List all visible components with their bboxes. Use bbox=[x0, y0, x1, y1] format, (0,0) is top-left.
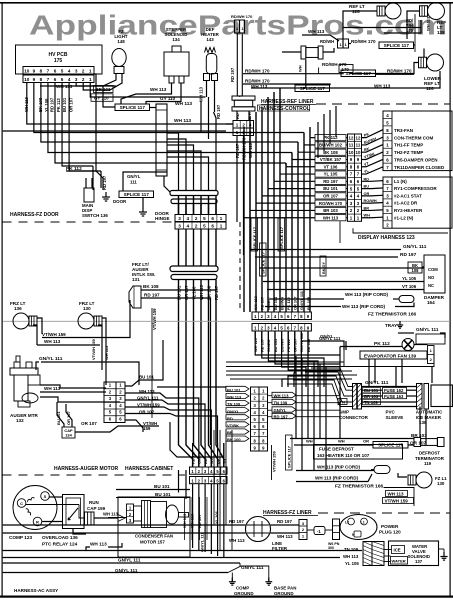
splice SPLICE 117 second bbox=[341, 70, 376, 77]
heater terminals bbox=[204, 74, 210, 81]
splice SPLICE 117 defrost bbox=[373, 442, 408, 449]
water valve box WATER VALVE SOLENOID 137 bbox=[389, 541, 439, 566]
svg-text:RD 197: RD 197 bbox=[260, 297, 265, 310]
svg-text:RD/WH 170: RD/WH 170 bbox=[245, 69, 270, 74]
wire 3pin leads down bbox=[236, 136, 238, 161]
svg-text:WH 113: WH 113 bbox=[274, 394, 290, 399]
svg-text:4: 4 bbox=[187, 216, 190, 221]
wire staircase row 7 bbox=[280, 173, 315, 175]
svg-text:BR: BR bbox=[364, 206, 370, 210]
HV PCB connector pins row 1 bbox=[23, 67, 94, 75]
svg-text:RD: RD bbox=[364, 177, 370, 181]
wire rail bottom 2 bbox=[3, 557, 340, 559]
svg-text:L1: L1 bbox=[361, 521, 365, 525]
wire right box outline bbox=[384, 488, 415, 507]
svg-text:TR11DAMPER CLOSED: TR11DAMPER CLOSED bbox=[394, 165, 445, 170]
wire staircase row 3 bbox=[256, 202, 315, 204]
svg-text:VT/WH 159: VT/WH 159 bbox=[385, 499, 409, 504]
svg-text:SWITCH 136: SWITCH 136 bbox=[82, 213, 108, 218]
svg-text:#2-AC1 STAT: #2-AC1 STAT bbox=[394, 193, 422, 198]
ground comp bbox=[231, 573, 233, 582]
svg-text:6: 6 bbox=[54, 77, 57, 82]
svg-text:FUSE DEFROST: FUSE DEFROST bbox=[319, 447, 354, 452]
svg-text:WH: WH bbox=[306, 439, 313, 444]
wire rail gn/yl 1 bbox=[3, 562, 240, 564]
svg-text:119: 119 bbox=[424, 461, 432, 466]
wire lf right leads bbox=[271, 524, 300, 526]
svg-text:WH: WH bbox=[298, 65, 303, 72]
svg-text:VT/BK 157: VT/BK 157 bbox=[320, 157, 342, 162]
wire bundle mid-right crossing bbox=[226, 361, 344, 363]
svg-text:TN 109: TN 109 bbox=[344, 547, 359, 552]
wires cabinet connector fanout bbox=[125, 340, 163, 386]
svg-text:1: 1 bbox=[89, 69, 92, 74]
border frame left bbox=[2, 2, 3, 597]
wire staircase row 4 bbox=[262, 195, 315, 197]
svg-text:1: 1 bbox=[236, 130, 239, 135]
svg-text:BU 101: BU 101 bbox=[323, 186, 338, 191]
connector 9-pin row1 bbox=[252, 312, 311, 320]
wire bundle hinge extra drops bbox=[200, 101, 202, 133]
fan EVAPORATOR FAN symbol bbox=[402, 339, 414, 351]
wire barrel leads down bbox=[236, 111, 238, 120]
HV PCB 175 box bbox=[16, 45, 103, 74]
compressor COMP 123 bbox=[13, 486, 57, 530]
svg-text:11: 11 bbox=[356, 143, 361, 148]
wire lf left leads bbox=[3, 524, 246, 526]
svg-text:4: 4 bbox=[68, 77, 71, 82]
svg-text:RY1-COMPRESSOR: RY1-COMPRESSOR bbox=[394, 186, 437, 191]
svg-text:RY2-HEATER: RY2-HEATER bbox=[394, 208, 423, 213]
wire auger leads bbox=[40, 391, 106, 393]
svg-text:BU 101: BU 101 bbox=[273, 296, 278, 310]
svg-text:2: 2 bbox=[195, 224, 198, 229]
svg-text:3: 3 bbox=[75, 69, 78, 74]
svg-text:PTC RELAY 124: PTC RELAY 124 bbox=[42, 542, 78, 547]
svg-text:RD 197: RD 197 bbox=[102, 175, 107, 190]
svg-text:4: 4 bbox=[68, 69, 71, 74]
svg-text:6: 6 bbox=[211, 216, 214, 221]
fz probe capsule bbox=[374, 466, 390, 474]
label GY 110 boxed bbox=[91, 94, 113, 102]
thermistor probe capsule bbox=[399, 296, 414, 303]
svg-text:8: 8 bbox=[40, 77, 43, 82]
svg-text:2: 2 bbox=[195, 216, 198, 221]
svg-text:R: R bbox=[36, 520, 39, 525]
svg-text:WH 113: WH 113 bbox=[199, 86, 204, 102]
svg-text:159: 159 bbox=[143, 426, 151, 431]
wire rip cord 1 bbox=[270, 298, 344, 300]
svg-text:RUN: RUN bbox=[89, 500, 99, 505]
svg-text:RD 197: RD 197 bbox=[50, 97, 55, 112]
splice SPLICE 117 rotated b bbox=[260, 243, 267, 276]
svg-text:VT/WH 159: VT/WH 159 bbox=[42, 332, 66, 337]
capsule -1 bbox=[314, 527, 325, 535]
svg-text:NO: NO bbox=[428, 275, 435, 280]
wire cabinet to mid connector runs bbox=[157, 387, 226, 392]
overload PTC RELAY box bbox=[63, 495, 85, 529]
svg-text:POWER: POWER bbox=[381, 524, 399, 529]
svg-text:WH 113: WH 113 bbox=[90, 542, 107, 547]
wire rip cord b bbox=[296, 474, 372, 482]
wire rdwh row-a bbox=[243, 73, 344, 75]
box EVAPORATOR FAN 139 bbox=[360, 351, 427, 359]
wire right long verticals bbox=[368, 359, 370, 386]
wire bk box leads bbox=[422, 266, 424, 268]
svg-text:WH 113: WH 113 bbox=[277, 534, 293, 539]
svg-text:10: 10 bbox=[24, 77, 30, 82]
wires amp rows bbox=[362, 389, 383, 391]
svg-text:TH1-FF TEMP: TH1-FF TEMP bbox=[394, 143, 423, 148]
svg-text:RD 197: RD 197 bbox=[400, 252, 417, 258]
svg-text:4: 4 bbox=[187, 224, 190, 229]
svg-text:BU 101: BU 101 bbox=[155, 492, 171, 497]
svg-text:RD/WH 170: RD/WH 170 bbox=[387, 69, 412, 74]
wire ref lt 128 lead bbox=[343, 11, 377, 39]
ground main disp bbox=[105, 192, 107, 197]
svg-text:OR 107: OR 107 bbox=[81, 421, 97, 426]
wire cap leads bbox=[57, 402, 64, 427]
wire vt/wh run bbox=[42, 300, 130, 338]
HV PCB connector pins row 2 bbox=[23, 75, 94, 83]
power plug POWER PLUG 120 bbox=[340, 515, 377, 540]
wire pk112 diagonal bbox=[66, 171, 103, 190]
svg-text:RD 197: RD 197 bbox=[274, 415, 289, 420]
svg-text:TR5-DAMPER OPEN: TR5-DAMPER OPEN bbox=[394, 158, 438, 163]
svg-text:SPLICE 117: SPLICE 117 bbox=[124, 192, 150, 197]
svg-text:GN/YL 111: GN/YL 111 bbox=[118, 558, 141, 563]
svg-text:WH 113: WH 113 bbox=[227, 395, 242, 400]
splice SPLICE 117 wh row bbox=[295, 85, 330, 92]
svg-text:DEFROST: DEFROST bbox=[419, 451, 440, 456]
svg-text:WATER: WATER bbox=[392, 559, 406, 564]
wire bundle central top drops bbox=[309, 127, 311, 138]
wire rd197 intlk bbox=[141, 298, 211, 445]
section divider ref-liner dashed bbox=[316, 103, 450, 105]
svg-text:163 HEATER 110 OR 107: 163 HEATER 110 OR 107 bbox=[317, 453, 370, 458]
wire gn/yl damper run bbox=[250, 249, 401, 251]
svg-text:SPLICE 117: SPLICE 117 bbox=[346, 71, 372, 76]
svg-text:FUSE 162: FUSE 162 bbox=[384, 388, 404, 393]
wire pcb pin bundle verticals bbox=[27, 83, 233, 125]
svg-text:COMP 123: COMP 123 bbox=[9, 535, 32, 540]
wire loom ladder bbox=[156, 104, 167, 176]
svg-text:L1 (N): L1 (N) bbox=[394, 179, 407, 184]
border frame top bbox=[0, 2, 453, 4]
wire arrow left connector bbox=[108, 517, 127, 519]
ground base pan bbox=[268, 578, 270, 582]
wire staircase verticals bbox=[309, 138, 311, 312]
svg-text:TR3-FAN: TR3-FAN bbox=[394, 128, 413, 133]
svg-text:ICE: ICE bbox=[394, 548, 401, 553]
svg-text:WH 113: WH 113 bbox=[426, 16, 431, 31]
wire comp to relay bbox=[50, 496, 63, 498]
wire rdwh row-c bbox=[376, 73, 414, 75]
label 170 boxed bbox=[339, 65, 353, 73]
wire staircase row 12 bbox=[310, 137, 315, 139]
svg-text:9: 9 bbox=[33, 77, 36, 82]
power cord connector stack bbox=[363, 542, 372, 566]
wire door hinge verticals upper bbox=[178, 196, 180, 215]
svg-text:WH: WH bbox=[338, 439, 345, 444]
motor AUGER MTR 132 bbox=[10, 368, 38, 375]
svg-text:VT/WH 159: VT/WH 159 bbox=[272, 451, 277, 472]
svg-text:HARNESS-FZ DOOR: HARNESS-FZ DOOR bbox=[10, 212, 59, 218]
svg-text:RD 197: RD 197 bbox=[323, 179, 338, 184]
svg-text:131: 131 bbox=[132, 277, 140, 282]
svg-text:RD 197: RD 197 bbox=[235, 143, 240, 158]
switch MAIN DISP SWITCH 136 bbox=[84, 188, 94, 202]
svg-text:RD: RD bbox=[235, 113, 240, 119]
svg-text:GN/YL 111: GN/YL 111 bbox=[403, 244, 427, 250]
svg-text:FUSE 163: FUSE 163 bbox=[384, 394, 404, 399]
wire left feeder to 3pin bbox=[226, 123, 233, 125]
svg-text:6: 6 bbox=[54, 69, 57, 74]
wire rail bottom 1 bbox=[3, 550, 362, 552]
svg-text:SPLICE 117: SPLICE 117 bbox=[287, 445, 292, 468]
wire heater legs bbox=[206, 81, 208, 98]
svg-text:TN 109: TN 109 bbox=[274, 401, 288, 406]
wire rip cord a bbox=[296, 470, 374, 472]
svg-text:BU 101: BU 101 bbox=[154, 484, 170, 489]
wire gn/yl auger bbox=[36, 362, 39, 370]
svg-text:WH 113: WH 113 bbox=[388, 492, 405, 497]
svg-text:S: S bbox=[44, 494, 47, 499]
svg-text:BN 100: BN 100 bbox=[227, 437, 241, 442]
connector lf 3cell right bbox=[333, 519, 340, 540]
wire 3pin continue bbox=[236, 160, 238, 222]
label ICE boxed bbox=[392, 546, 405, 554]
svg-text:HINGE: HINGE bbox=[155, 216, 170, 221]
svg-text:VT 106: VT 106 bbox=[402, 284, 417, 289]
ground tray bbox=[399, 321, 401, 325]
arrow connector wh bbox=[118, 515, 125, 522]
svg-text:GN/YL: GN/YL bbox=[274, 408, 287, 413]
svg-text:N: N bbox=[352, 533, 355, 537]
evap fan enclosure bbox=[344, 350, 434, 367]
svg-text:L2: L2 bbox=[345, 521, 349, 525]
svg-text:132: 132 bbox=[16, 418, 24, 423]
svg-text:10: 10 bbox=[349, 150, 354, 155]
svg-text:WH 113: WH 113 bbox=[103, 512, 119, 517]
svg-text:5: 5 bbox=[203, 216, 206, 221]
connector cabinet-liner 6pin row2 bbox=[190, 477, 228, 484]
wires amp connector left feeds bbox=[311, 368, 353, 387]
svg-text:5: 5 bbox=[61, 77, 64, 82]
wire condenser rotated-label wires bbox=[184, 497, 186, 540]
wire wh113 long row bbox=[251, 71, 440, 88]
svg-text:138: 138 bbox=[437, 30, 445, 35]
wire bundle 9pin to right fanout bbox=[255, 331, 340, 355]
svg-text:134: 134 bbox=[172, 37, 180, 42]
svg-text:HARNESS-AUGER MOTOR: HARNESS-AUGER MOTOR bbox=[54, 466, 118, 472]
label TN boxed bbox=[338, 399, 347, 405]
wire door hinge verticals lower bbox=[178, 229, 180, 266]
wires connector to display upper (diagonals) bbox=[362, 130, 384, 138]
wire barrel drop wh bbox=[305, 60, 307, 88]
svg-text:YL 105: YL 105 bbox=[402, 276, 417, 281]
svg-text:BU 101: BU 101 bbox=[139, 375, 154, 380]
wire hinge bundle bottom fanout bbox=[178, 470, 180, 493]
box FUSE DEFROST HEATER bbox=[314, 445, 403, 460]
svg-text:EVAPORATOR FAN 139: EVAPORATOR FAN 139 bbox=[364, 354, 416, 359]
wire 9pin verticals below bbox=[254, 331, 256, 340]
wire staircase row 11 bbox=[304, 144, 315, 146]
svg-text:WH 113 (RIP CORD): WH 113 (RIP CORD) bbox=[317, 465, 361, 470]
svg-text:GN/YL 111: GN/YL 111 bbox=[319, 336, 341, 341]
svg-text:SPLICE 117: SPLICE 117 bbox=[261, 251, 266, 274]
label BR 103 boxed bbox=[94, 86, 114, 93]
splice SPLICE 117 upper right bbox=[379, 42, 414, 49]
svg-text:WH 113: WH 113 bbox=[104, 345, 109, 360]
svg-text:WH 113: WH 113 bbox=[56, 84, 73, 89]
border frame bottom bbox=[0, 596, 453, 598]
svg-text:WH 113: WH 113 bbox=[229, 538, 245, 543]
svg-text:3: 3 bbox=[178, 224, 181, 229]
svg-text:RD/WH 170: RD/WH 170 bbox=[351, 39, 376, 44]
svg-text:111: 111 bbox=[130, 180, 137, 185]
svg-text:GN/YL 111: GN/YL 111 bbox=[39, 356, 63, 362]
svg-text:BU 101: BU 101 bbox=[227, 388, 241, 393]
svg-text:PLUG 120: PLUG 120 bbox=[379, 530, 401, 535]
svg-text:VT/WH 159: VT/WH 159 bbox=[152, 308, 157, 330]
wire bundle bottom-center verticals bbox=[295, 356, 297, 439]
svg-text:WH 113: WH 113 bbox=[44, 339, 61, 344]
svg-text:RD: RD bbox=[227, 416, 233, 421]
svg-text:HARNESS-AC ASSY: HARNESS-AC ASSY bbox=[14, 588, 58, 593]
svg-text:7: 7 bbox=[47, 77, 50, 82]
splice SPLICE 117 rotated c bbox=[278, 218, 285, 251]
svg-text:SPLICE 117: SPLICE 117 bbox=[384, 43, 410, 48]
svg-text:SPLICE 117: SPLICE 117 bbox=[252, 226, 257, 249]
svg-text:WH 113: WH 113 bbox=[175, 101, 192, 107]
svg-text:GROUND: GROUND bbox=[234, 591, 254, 596]
wire gn/yl to right bars bbox=[362, 386, 417, 388]
svg-text:BK 108: BK 108 bbox=[323, 150, 338, 155]
svg-text:YL 106: YL 106 bbox=[214, 510, 219, 524]
svg-text:WH: WH bbox=[364, 214, 371, 218]
display harness outline bbox=[353, 228, 448, 233]
wire or 107 run bbox=[75, 426, 159, 432]
wire fz l1 leads bbox=[398, 473, 407, 477]
svg-text:BU 101: BU 101 bbox=[62, 97, 67, 112]
label BR 103 boxed bbox=[363, 393, 381, 398]
wire pk112 to switch bbox=[92, 166, 94, 190]
labels left of mid connector bbox=[226, 386, 249, 391]
svg-text:GN/YL: GN/YL bbox=[227, 409, 240, 414]
wire bk108 intlk bbox=[141, 289, 217, 291]
connector 3pin ref-liner bbox=[233, 121, 254, 129]
wire gn/yl diagonal bbox=[228, 566, 269, 582]
connector lf 3cell bbox=[299, 520, 307, 540]
svg-text:3: 3 bbox=[75, 77, 78, 82]
defrost terminator barrel bbox=[414, 438, 421, 447]
wire staircase row 1 bbox=[244, 217, 315, 219]
svg-text:130: 130 bbox=[83, 306, 91, 311]
svg-text:RD 197: RD 197 bbox=[144, 293, 160, 298]
svg-text:170: 170 bbox=[406, 28, 414, 33]
svg-text:2: 2 bbox=[242, 123, 245, 128]
wire damper leads bbox=[259, 267, 424, 269]
connector cabinet-liner 6pin row1 bbox=[190, 467, 228, 474]
svg-text:TRAY: TRAY bbox=[385, 323, 397, 328]
svg-text:RO/WH: RO/WH bbox=[364, 199, 377, 203]
barrel connector top bbox=[301, 46, 306, 59]
svg-text:CONDENSER FAN: CONDENSER FAN bbox=[135, 534, 173, 539]
svg-text:TN 109: TN 109 bbox=[227, 402, 241, 407]
svg-text:SPLICE 117: SPLICE 117 bbox=[300, 86, 326, 91]
wire pk112 fan bbox=[340, 346, 402, 348]
label TN 109 boxed bbox=[363, 399, 381, 404]
splice BK rotated d bbox=[320, 256, 326, 276]
wire wh113 bottom run bbox=[86, 547, 90, 550]
svg-text:FZ THERMISTOR 166: FZ THERMISTOR 166 bbox=[335, 484, 383, 490]
svg-text:1: 1 bbox=[89, 77, 92, 82]
svg-text:TH2-FZ TEMP: TH2-FZ TEMP bbox=[394, 150, 423, 155]
svg-text:1: 1 bbox=[236, 123, 239, 128]
wire splice117 to bulbs bbox=[349, 43, 352, 45]
connector bar door hinge top bbox=[170, 191, 218, 196]
svg-text:VT/WH 159: VT/WH 159 bbox=[91, 339, 96, 360]
ground water valve bbox=[439, 548, 445, 550]
svg-text:OVERLOAD 136: OVERLOAD 136 bbox=[42, 535, 78, 540]
connector 6pin cabinet bbox=[104, 382, 116, 423]
svg-text:143: 143 bbox=[206, 37, 214, 42]
svg-text:C: C bbox=[20, 501, 23, 506]
svg-text:OR 107: OR 107 bbox=[69, 97, 74, 112]
svg-text:VT 106: VT 106 bbox=[324, 164, 338, 169]
wire pin2 branch bbox=[94, 74, 97, 171]
wire rail gn/yl 2 bbox=[3, 572, 228, 574]
svg-text:RD/WH 170: RD/WH 170 bbox=[231, 14, 253, 19]
label WH 113 boxed right bbox=[386, 491, 408, 497]
splice SPLICE 117 door bbox=[119, 191, 154, 198]
display box lower bbox=[383, 177, 452, 228]
connector door hinge row2 bbox=[175, 222, 226, 229]
svg-text:WH 113 (RIP CORD): WH 113 (RIP CORD) bbox=[345, 292, 389, 297]
svg-text:WH 113: WH 113 bbox=[150, 87, 167, 92]
border frame right bbox=[450, 2, 451, 597]
svg-text:7: 7 bbox=[47, 69, 50, 74]
svg-text:BK 108: BK 108 bbox=[306, 296, 311, 310]
svg-text:MOTOR 157: MOTOR 157 bbox=[140, 540, 165, 545]
svg-text:PK 113: PK 113 bbox=[56, 98, 61, 112]
svg-text:5: 5 bbox=[61, 69, 64, 74]
wire staircase row 6 bbox=[274, 180, 315, 182]
wire staircase row 5 bbox=[268, 188, 315, 190]
wire staircase row 2 bbox=[250, 209, 315, 211]
svg-text:10: 10 bbox=[24, 69, 30, 74]
svg-text:GN/YL 111: GN/YL 111 bbox=[200, 532, 205, 552]
svg-text:1: 1 bbox=[220, 224, 223, 229]
svg-text:YL 106: YL 106 bbox=[44, 98, 49, 112]
svg-text:GN/YL 111: GN/YL 111 bbox=[416, 327, 439, 332]
ground door splice bbox=[142, 198, 144, 208]
svg-text:2: 2 bbox=[82, 69, 85, 74]
svg-text:PVC: PVC bbox=[386, 410, 396, 415]
svg-text:WH 113: WH 113 bbox=[44, 386, 61, 391]
svg-text:WH 113 (RIP CORD): WH 113 (RIP CORD) bbox=[315, 476, 359, 481]
svg-text:CAP 159: CAP 159 bbox=[87, 506, 106, 511]
svg-text:COMP: COMP bbox=[236, 586, 249, 591]
svg-text:HARNESS-CABINET: HARNESS-CABINET bbox=[125, 466, 173, 472]
wire top-left bus pair bbox=[237, 33, 242, 96]
splice SPLICE 117 (fz door) bbox=[115, 104, 150, 111]
compressor windings bbox=[27, 497, 35, 502]
svg-text:YL 105: YL 105 bbox=[324, 172, 338, 177]
wire relay bottom to wh113 bbox=[73, 529, 86, 535]
wire into barrel bbox=[282, 51, 301, 53]
